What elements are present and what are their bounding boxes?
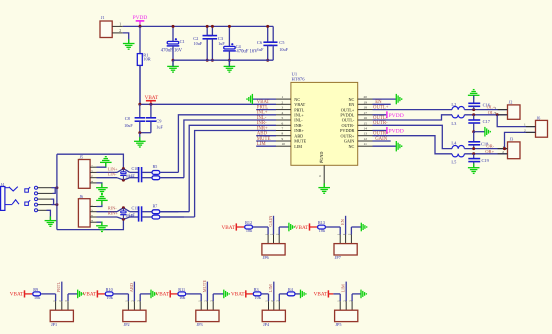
svg-text:C11: C11 <box>132 206 139 211</box>
svg-text:10k: 10k <box>255 295 262 300</box>
svg-text:OUTR+: OUTR+ <box>341 133 355 138</box>
svg-text:LIN+: LIN+ <box>108 166 118 171</box>
svg-text:INL-: INL- <box>257 116 267 121</box>
svg-text:14: 14 <box>364 127 368 131</box>
svg-text:JP7: JP7 <box>335 255 341 260</box>
svg-text:10k: 10k <box>34 295 41 300</box>
svg-text:C8: C8 <box>125 116 131 121</box>
svg-text:PVDD: PVDD <box>133 15 148 21</box>
svg-text:R12: R12 <box>245 220 252 225</box>
svg-text:L4: L4 <box>451 141 457 146</box>
svg-text:R11: R11 <box>178 287 185 292</box>
svg-text:VBAT: VBAT <box>155 292 169 298</box>
svg-text:VBAT: VBAT <box>231 292 245 298</box>
svg-text:15: 15 <box>364 121 368 125</box>
svg-text:J5: J5 <box>80 155 84 160</box>
svg-text:PVDD: PVDD <box>389 129 404 135</box>
svg-text:ABD: ABD <box>294 133 303 138</box>
svg-text:R3: R3 <box>254 287 259 292</box>
svg-text:C10: C10 <box>132 166 139 171</box>
svg-text:L2: L2 <box>451 102 456 107</box>
svg-text:NC: NC <box>348 144 354 149</box>
svg-text:1: 1 <box>524 123 526 127</box>
svg-text:INL-: INL- <box>294 118 303 123</box>
svg-text:PVDD: PVDD <box>389 113 404 119</box>
svg-text:16: 16 <box>364 116 368 120</box>
svg-text:10uF: 10uF <box>279 47 288 52</box>
svg-text:19: 19 <box>364 100 368 104</box>
svg-text:J1: J1 <box>101 15 105 20</box>
svg-text:10uF: 10uF <box>194 41 203 46</box>
svg-text:HT876: HT876 <box>292 77 306 82</box>
svg-text:LIM: LIM <box>257 142 267 147</box>
svg-text:1: 1 <box>282 95 284 99</box>
svg-text:R7: R7 <box>153 204 158 209</box>
svg-text:RIN+: RIN+ <box>108 211 119 216</box>
svg-text:10R: 10R <box>143 57 150 62</box>
svg-text:6: 6 <box>282 121 284 125</box>
svg-text:470uF 16V: 470uF 16V <box>236 49 258 54</box>
svg-text:LIN-: LIN- <box>108 172 117 177</box>
svg-text:1: 1 <box>119 22 121 26</box>
svg-text:VBAT: VBAT <box>83 292 97 298</box>
svg-text:17: 17 <box>364 111 368 115</box>
svg-text:VBAT: VBAT <box>145 95 159 101</box>
svg-text:2: 2 <box>119 29 121 33</box>
svg-text:VBAT: VBAT <box>294 102 305 107</box>
svg-text:C1: C1 <box>180 39 185 44</box>
svg-text:5: 5 <box>282 116 284 120</box>
svg-text:18: 18 <box>364 106 368 110</box>
svg-text:J2: J2 <box>509 100 513 105</box>
svg-text:C5: C5 <box>279 40 285 45</box>
svg-text:J3: J3 <box>510 137 514 142</box>
svg-text:EN: EN <box>375 100 382 105</box>
svg-text:9: 9 <box>282 137 284 141</box>
svg-text:ABD: ABD <box>257 132 268 137</box>
svg-text:C17: C17 <box>483 119 491 124</box>
svg-text:10k: 10k <box>107 295 114 300</box>
svg-text:J6: J6 <box>80 194 84 199</box>
svg-text:GAIN: GAIN <box>268 215 273 227</box>
svg-text:R10: R10 <box>106 287 113 292</box>
svg-text:JP2: JP2 <box>124 322 130 327</box>
svg-text:PRTL: PRTL <box>56 282 61 293</box>
svg-text:LIM: LIM <box>268 284 273 292</box>
svg-text:VBAT: VBAT <box>222 225 236 231</box>
svg-text:20: 20 <box>364 95 368 99</box>
svg-text:470uF 16V: 470uF 16V <box>161 48 183 53</box>
svg-text:1uF: 1uF <box>156 124 163 129</box>
svg-text:10k: 10k <box>179 295 186 300</box>
svg-text:L5: L5 <box>451 160 457 165</box>
svg-text:EN: EN <box>349 102 355 107</box>
svg-text:LIM: LIM <box>341 284 346 292</box>
svg-text:LIM: LIM <box>294 144 302 149</box>
svg-text:JP6: JP6 <box>263 255 269 260</box>
svg-text:2: 2 <box>524 128 526 132</box>
svg-text:MUTE: MUTE <box>202 280 207 293</box>
svg-text:10k: 10k <box>319 228 326 233</box>
svg-text:VBAT: VBAT <box>314 292 328 298</box>
svg-text:12: 12 <box>364 137 368 141</box>
svg-text:ABD: ABD <box>129 283 134 292</box>
svg-text:3: 3 <box>282 106 284 110</box>
svg-text:R9: R9 <box>33 287 38 292</box>
svg-text:7: 7 <box>282 127 284 131</box>
svg-text:EN: EN <box>340 218 345 225</box>
svg-text:VBAT: VBAT <box>257 100 270 105</box>
svg-text:10uF: 10uF <box>124 123 133 128</box>
svg-text:JP4: JP4 <box>263 322 270 327</box>
svg-text:2: 2 <box>282 100 284 104</box>
svg-text:R5: R5 <box>153 164 158 169</box>
svg-text:C9: C9 <box>156 119 162 124</box>
svg-text:VBAT: VBAT <box>10 292 24 298</box>
svg-text:21: 21 <box>319 159 323 163</box>
svg-text:INR+: INR+ <box>257 126 268 131</box>
svg-text:1uF: 1uF <box>129 214 135 218</box>
svg-text:JP3: JP3 <box>197 322 203 327</box>
svg-text:C19: C19 <box>482 158 490 163</box>
svg-text:JP1: JP1 <box>51 322 57 327</box>
svg-text:1uF: 1uF <box>218 41 225 46</box>
svg-text:4: 4 <box>282 111 284 115</box>
svg-text:10k: 10k <box>246 228 253 233</box>
svg-text:C6: C6 <box>257 40 263 45</box>
svg-text:R13: R13 <box>318 220 325 225</box>
svg-text:OUTL-: OUTL- <box>342 118 355 123</box>
svg-text:L3: L3 <box>451 121 457 126</box>
svg-text:1uF: 1uF <box>129 174 135 178</box>
svg-text:OL-: OL- <box>488 110 496 115</box>
svg-text:GAIN: GAIN <box>375 137 388 142</box>
svg-text:11: 11 <box>364 142 368 146</box>
svg-text:JP5: JP5 <box>335 322 341 327</box>
svg-text:8: 8 <box>282 132 284 136</box>
svg-text:1uF: 1uF <box>257 47 264 52</box>
svg-text:10: 10 <box>282 142 286 146</box>
svg-text:OR+: OR+ <box>485 149 494 154</box>
svg-text:J6: J6 <box>537 116 541 121</box>
svg-text:13: 13 <box>364 132 368 136</box>
svg-text:VBAT: VBAT <box>295 225 309 231</box>
